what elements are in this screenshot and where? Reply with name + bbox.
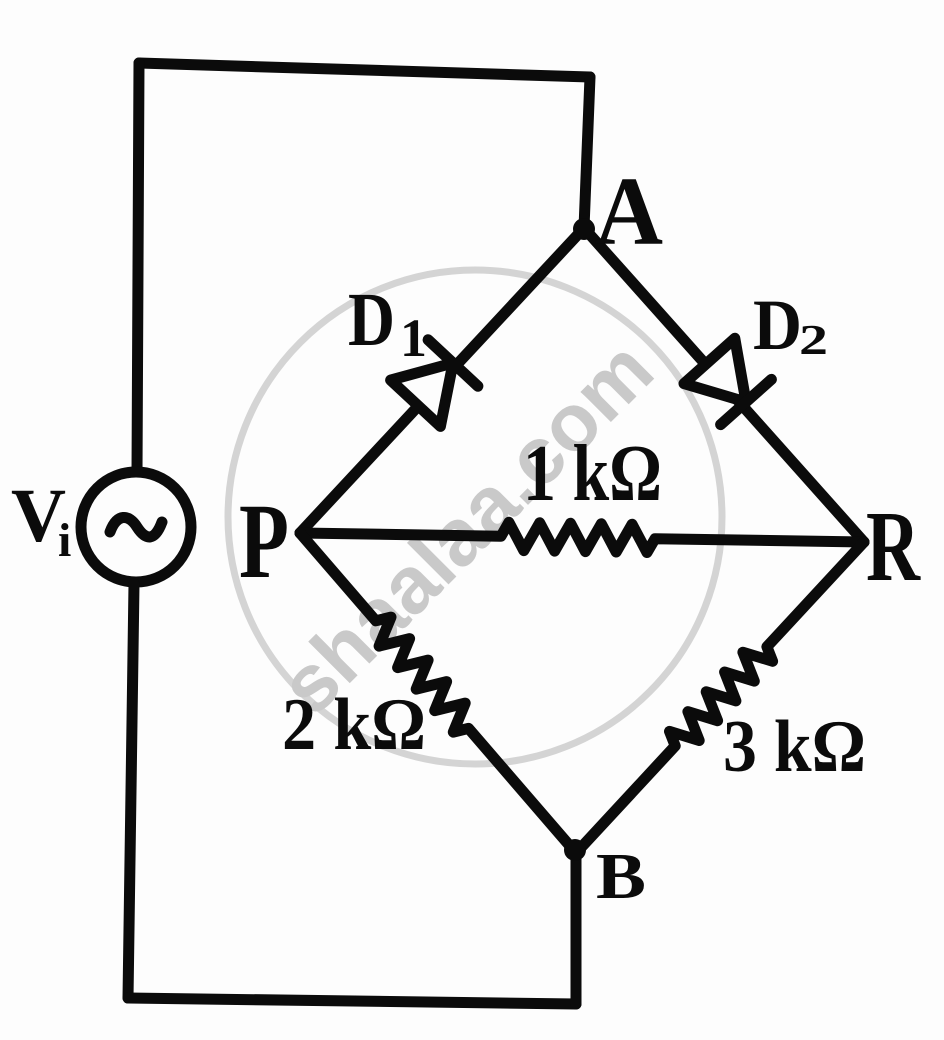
diode D2 cathode bar	[721, 379, 772, 424]
svg-text:1 kΩ: 1 kΩ	[523, 430, 662, 518]
AC source tilde	[110, 517, 162, 536]
diode D1 triangle (pointing to A)	[391, 363, 453, 426]
AC source V_i circle	[81, 472, 191, 582]
watermark circle	[228, 270, 722, 764]
svg-text:2: 2	[799, 318, 828, 364]
svg-text:D: D	[753, 285, 802, 365]
svg-text:2 kΩ: 2 kΩ	[282, 684, 426, 766]
wire: left side upper (top corner to source)	[137, 63, 139, 472]
resistor 1 kOhm (P to R)	[300, 522, 864, 552]
svg-text:i: i	[58, 514, 71, 567]
diode D2 triangle (pointing to R)	[684, 338, 746, 402]
svg-text:B: B	[596, 840, 646, 913]
wire: bottom side of outer loop	[128, 998, 576, 1004]
wire: left side lower (source to bottom corner)	[128, 584, 134, 998]
resistor 2 kOhm (P to B)	[300, 533, 576, 853]
svg-text:R: R	[866, 490, 921, 602]
diode D1 cathode bar	[428, 340, 478, 386]
svg-text:A: A	[595, 158, 663, 266]
wire: branch A to R (diode D2 arm)	[584, 228, 864, 542]
wire: top side of outer loop	[139, 63, 590, 77]
resistor 3 kOhm (B to R)	[576, 542, 864, 853]
wire: bottom right rise to node B	[571, 853, 582, 1004]
node A junction dot	[573, 218, 595, 240]
svg-text:1: 1	[400, 308, 427, 368]
wire: upper right drop to node A	[584, 77, 590, 228]
node B junction dot	[564, 839, 586, 861]
svg-text:D: D	[348, 278, 395, 362]
svg-text:P: P	[239, 483, 289, 601]
wire: branch A to P (diode D1 arm)	[300, 228, 584, 533]
svg-text:3 kΩ: 3 kΩ	[723, 706, 866, 788]
